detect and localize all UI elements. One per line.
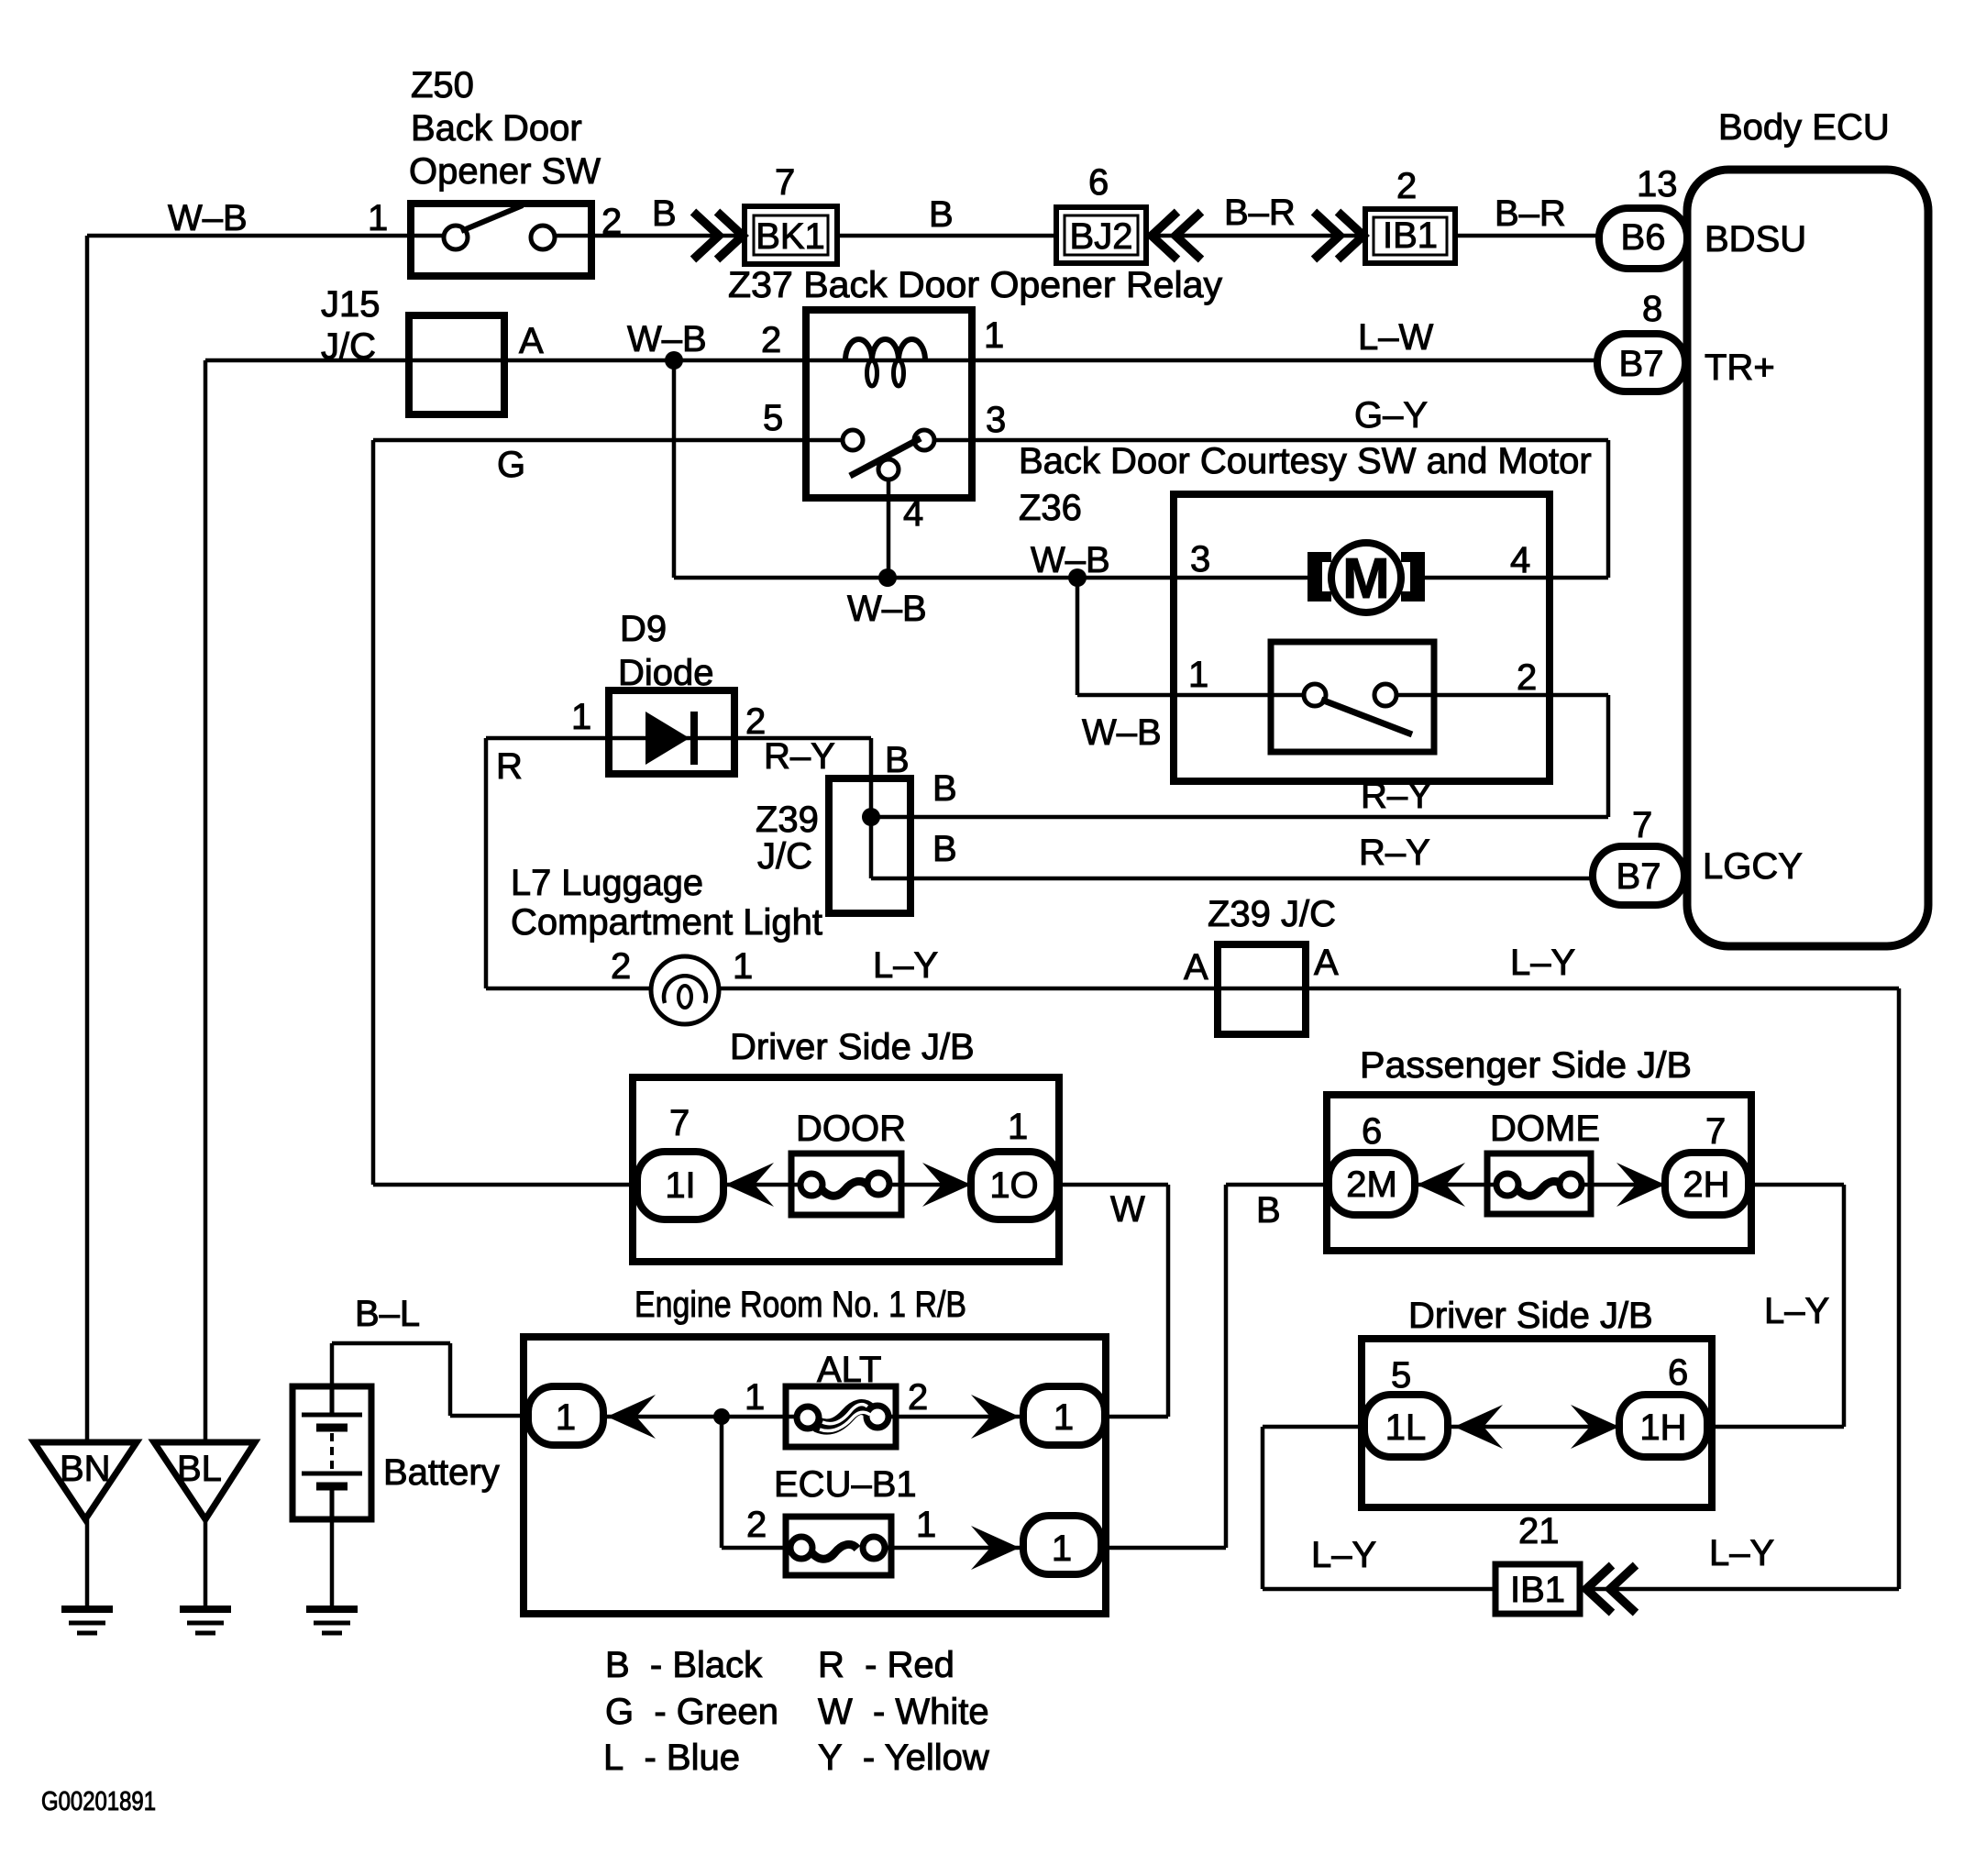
svg-text:7: 7 [1705,1111,1726,1152]
svg-text:2: 2 [746,1505,767,1545]
svg-text:Z37 Back Door Opener Relay: Z37 Back Door Opener Relay [728,265,1222,305]
svg-text:7: 7 [669,1103,690,1143]
svg-text:Driver Side J/B: Driver Side J/B [1408,1296,1653,1336]
svg-text:DOOR: DOOR [796,1109,906,1149]
svg-text:B: B [885,740,910,780]
svg-text:1: 1 [368,198,388,238]
svg-text:Y - Yellow: Y - Yellow [818,1738,989,1778]
svg-text:1O: 1O [989,1165,1038,1206]
svg-text:TR+: TR+ [1705,348,1775,388]
svg-text:R–Y: R–Y [1359,833,1430,873]
svg-text:Engine Room No. 1 R/B: Engine Room No. 1 R/B [634,1285,966,1325]
svg-text:DOME: DOME [1490,1109,1600,1149]
svg-text:2: 2 [908,1377,928,1418]
svg-text:B–R: B–R [1495,193,1566,234]
svg-text:J/C: J/C [321,326,376,367]
svg-text:7: 7 [775,162,795,203]
svg-text:1: 1 [1052,1528,1072,1569]
svg-text:B: B [652,193,677,234]
svg-text:5: 5 [763,398,783,438]
svg-text:Z39: Z39 [756,800,819,840]
svg-text:2: 2 [601,202,622,242]
svg-text:3: 3 [1190,539,1210,579]
svg-text:B: B [932,768,957,809]
svg-text:3: 3 [986,400,1006,440]
svg-text:2H: 2H [1683,1164,1729,1205]
svg-text:W–B: W–B [1031,540,1110,580]
svg-text:Compartment Light: Compartment Light [511,902,822,943]
svg-text:1: 1 [733,946,753,987]
svg-text:L–Y: L–Y [1709,1533,1774,1573]
svg-text:1: 1 [1008,1107,1028,1147]
svg-text:1: 1 [1054,1397,1074,1438]
svg-text:2: 2 [1396,166,1417,206]
svg-text:A: A [1184,947,1208,988]
svg-text:6: 6 [1668,1352,1688,1393]
svg-text:R–Y: R–Y [764,736,835,777]
svg-text:2: 2 [1517,657,1537,698]
svg-text:G–Y: G–Y [1354,395,1428,436]
svg-text:W–B: W–B [1082,712,1162,753]
svg-text:2M: 2M [1346,1164,1397,1205]
svg-text:G - Green: G - Green [605,1692,778,1732]
svg-text:R–Y: R–Y [1361,776,1432,816]
svg-text:Z39 J/C: Z39 J/C [1208,894,1336,934]
svg-text:BK1: BK1 [756,216,825,257]
svg-text:B - Black: B - Black [605,1645,763,1685]
svg-text:Back Door: Back Door [411,108,582,149]
svg-text:B: B [929,194,954,235]
svg-text:21: 21 [1518,1511,1560,1551]
svg-text:J15: J15 [321,284,381,325]
svg-text:13: 13 [1637,164,1678,204]
svg-text:Battery: Battery [383,1452,500,1493]
svg-text:Back Door Courtesy SW and Moto: Back Door Courtesy SW and Motor [1019,441,1592,481]
svg-text:7: 7 [1632,805,1652,845]
svg-text:L - Blue: L - Blue [603,1738,740,1778]
svg-text:BN: BN [60,1449,111,1489]
svg-text:B7: B7 [1619,344,1664,384]
svg-text:B6: B6 [1621,217,1666,258]
svg-text:2: 2 [745,701,766,742]
svg-text:G00201891: G00201891 [41,1787,156,1816]
svg-text:D9: D9 [620,609,667,649]
svg-text:M: M [1342,547,1390,611]
svg-text:1: 1 [745,1377,765,1418]
svg-text:1L: 1L [1385,1407,1427,1448]
svg-text:W: W [1110,1189,1145,1230]
svg-text:A: A [519,321,544,361]
svg-text:4: 4 [903,493,923,534]
svg-text:G: G [497,445,525,485]
svg-text:6: 6 [1088,162,1109,203]
svg-text:J/C: J/C [757,836,812,877]
svg-text:1H: 1H [1639,1407,1686,1448]
svg-text:B–R: B–R [1224,193,1296,233]
svg-text:A: A [1314,943,1339,983]
svg-text:R: R [496,746,523,787]
svg-text:W–B: W–B [627,319,707,359]
svg-text:W - White: W - White [818,1692,989,1732]
svg-text:1: 1 [916,1505,936,1545]
svg-text:Z50: Z50 [411,65,474,105]
svg-text:Diode: Diode [618,653,714,693]
svg-text:Passenger Side J/B: Passenger Side J/B [1360,1045,1692,1086]
svg-text:BL: BL [177,1449,222,1489]
svg-text:B: B [1256,1190,1281,1230]
svg-text:R - Red: R - Red [818,1645,954,1685]
svg-text:B: B [932,829,957,869]
svg-text:BJ2: BJ2 [1070,216,1133,257]
svg-text:L–Y: L–Y [1311,1535,1376,1575]
svg-text:Z36: Z36 [1019,488,1082,528]
svg-text:1: 1 [1188,655,1208,695]
svg-text:L–Y: L–Y [873,945,938,986]
svg-text:BDSU: BDSU [1705,219,1806,259]
svg-text:2: 2 [761,320,781,360]
svg-text:W–B: W–B [847,589,927,629]
svg-text:8: 8 [1642,289,1662,329]
svg-text:6: 6 [1362,1111,1382,1152]
svg-text:4: 4 [1510,540,1530,580]
svg-text:IB1: IB1 [1383,215,1438,256]
svg-text:L–Y: L–Y [1510,943,1575,983]
svg-text:L–W: L–W [1358,317,1433,358]
svg-text:W–B: W–B [168,198,248,238]
svg-text:L–Y: L–Y [1764,1291,1829,1331]
svg-text:Body ECU: Body ECU [1718,107,1890,148]
svg-text:ECU–B1: ECU–B1 [774,1464,917,1505]
svg-text:IB1: IB1 [1510,1570,1565,1610]
svg-text:Opener SW: Opener SW [409,151,601,192]
svg-text:2: 2 [611,946,631,987]
svg-text:1: 1 [571,697,591,737]
svg-text:ALT: ALT [817,1350,881,1390]
svg-text:Driver Side J/B: Driver Side J/B [730,1027,975,1067]
svg-text:1: 1 [556,1397,576,1438]
svg-text:B7: B7 [1616,856,1661,897]
svg-text:5: 5 [1391,1355,1411,1396]
svg-text:1I: 1I [665,1165,695,1206]
svg-text:LGCY: LGCY [1703,846,1803,887]
svg-text:L7 Luggage: L7 Luggage [511,863,703,903]
svg-text:B–L: B–L [355,1294,420,1334]
svg-text:1: 1 [984,315,1004,356]
